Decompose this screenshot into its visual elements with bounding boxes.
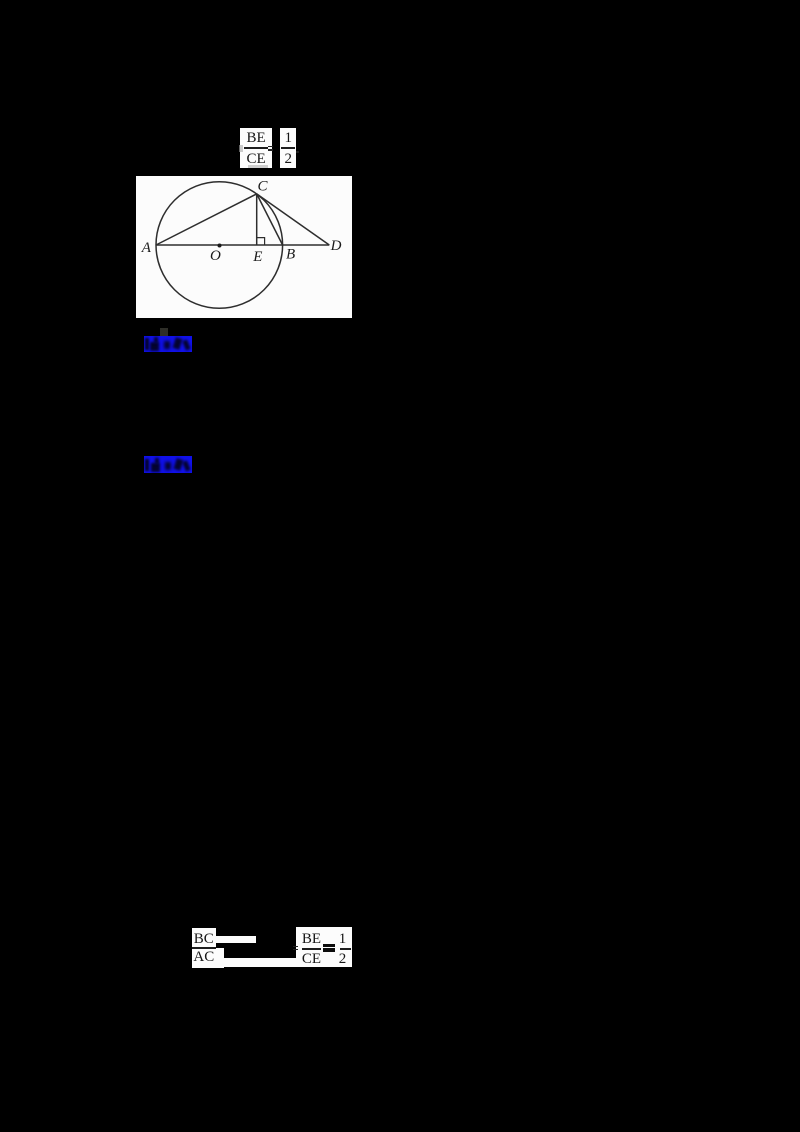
top equation fraction BE/CE box — [240, 128, 272, 168]
geometry figure white panel — [136, 176, 352, 318]
wire line A-D — [156, 244, 329, 246]
bottom equation: white strip right of BC — [216, 936, 257, 943]
right angle mark at E — [257, 238, 265, 245]
center dot O — [218, 244, 222, 248]
gray caret block above answer tag — [160, 328, 168, 336]
scan artifacts: gray strip bottom of box2 — [282, 165, 294, 168]
top equation equals sign (dim on black) — [268, 146, 273, 148]
bottom equation: long white strip right of AC — [224, 958, 297, 967]
wire line C-D — [257, 194, 330, 245]
svg-text:A: A — [141, 240, 152, 256]
scan artifacts: gray patch left edge of box1 — [239, 145, 243, 153]
wire line A-C — [156, 194, 257, 245]
svg-text:B: B — [286, 247, 295, 263]
scan artifact: faint dash right of box2 — [296, 151, 299, 153]
wire line C-E — [256, 194, 258, 245]
blue highlighted tag 2 — [144, 456, 192, 473]
top equation fraction 1/2 box — [280, 128, 296, 168]
blue highlighted tag 1 — [144, 336, 192, 352]
bold equals — [323, 944, 335, 947]
circle O — [156, 182, 283, 309]
svg-text:D: D — [330, 238, 342, 254]
svg-text:C: C — [258, 179, 269, 195]
wire line C-B — [257, 194, 283, 245]
svg-text:O: O — [210, 248, 221, 264]
svg-text:E: E — [252, 249, 262, 265]
bottom equation: AC denominator box — [192, 948, 224, 968]
bottom equation: BC numerator box — [192, 928, 216, 948]
scan artifacts: gray strip bottom of box1 — [248, 165, 268, 168]
bottom equation: BC/AC fraction bar — [192, 947, 216, 949]
bottom equation: dim equals before right box — [293, 946, 299, 948]
bottom equation: right white box with BE/CE = 1/2 — [296, 927, 352, 967]
geometry figure drawing — [136, 176, 352, 318]
